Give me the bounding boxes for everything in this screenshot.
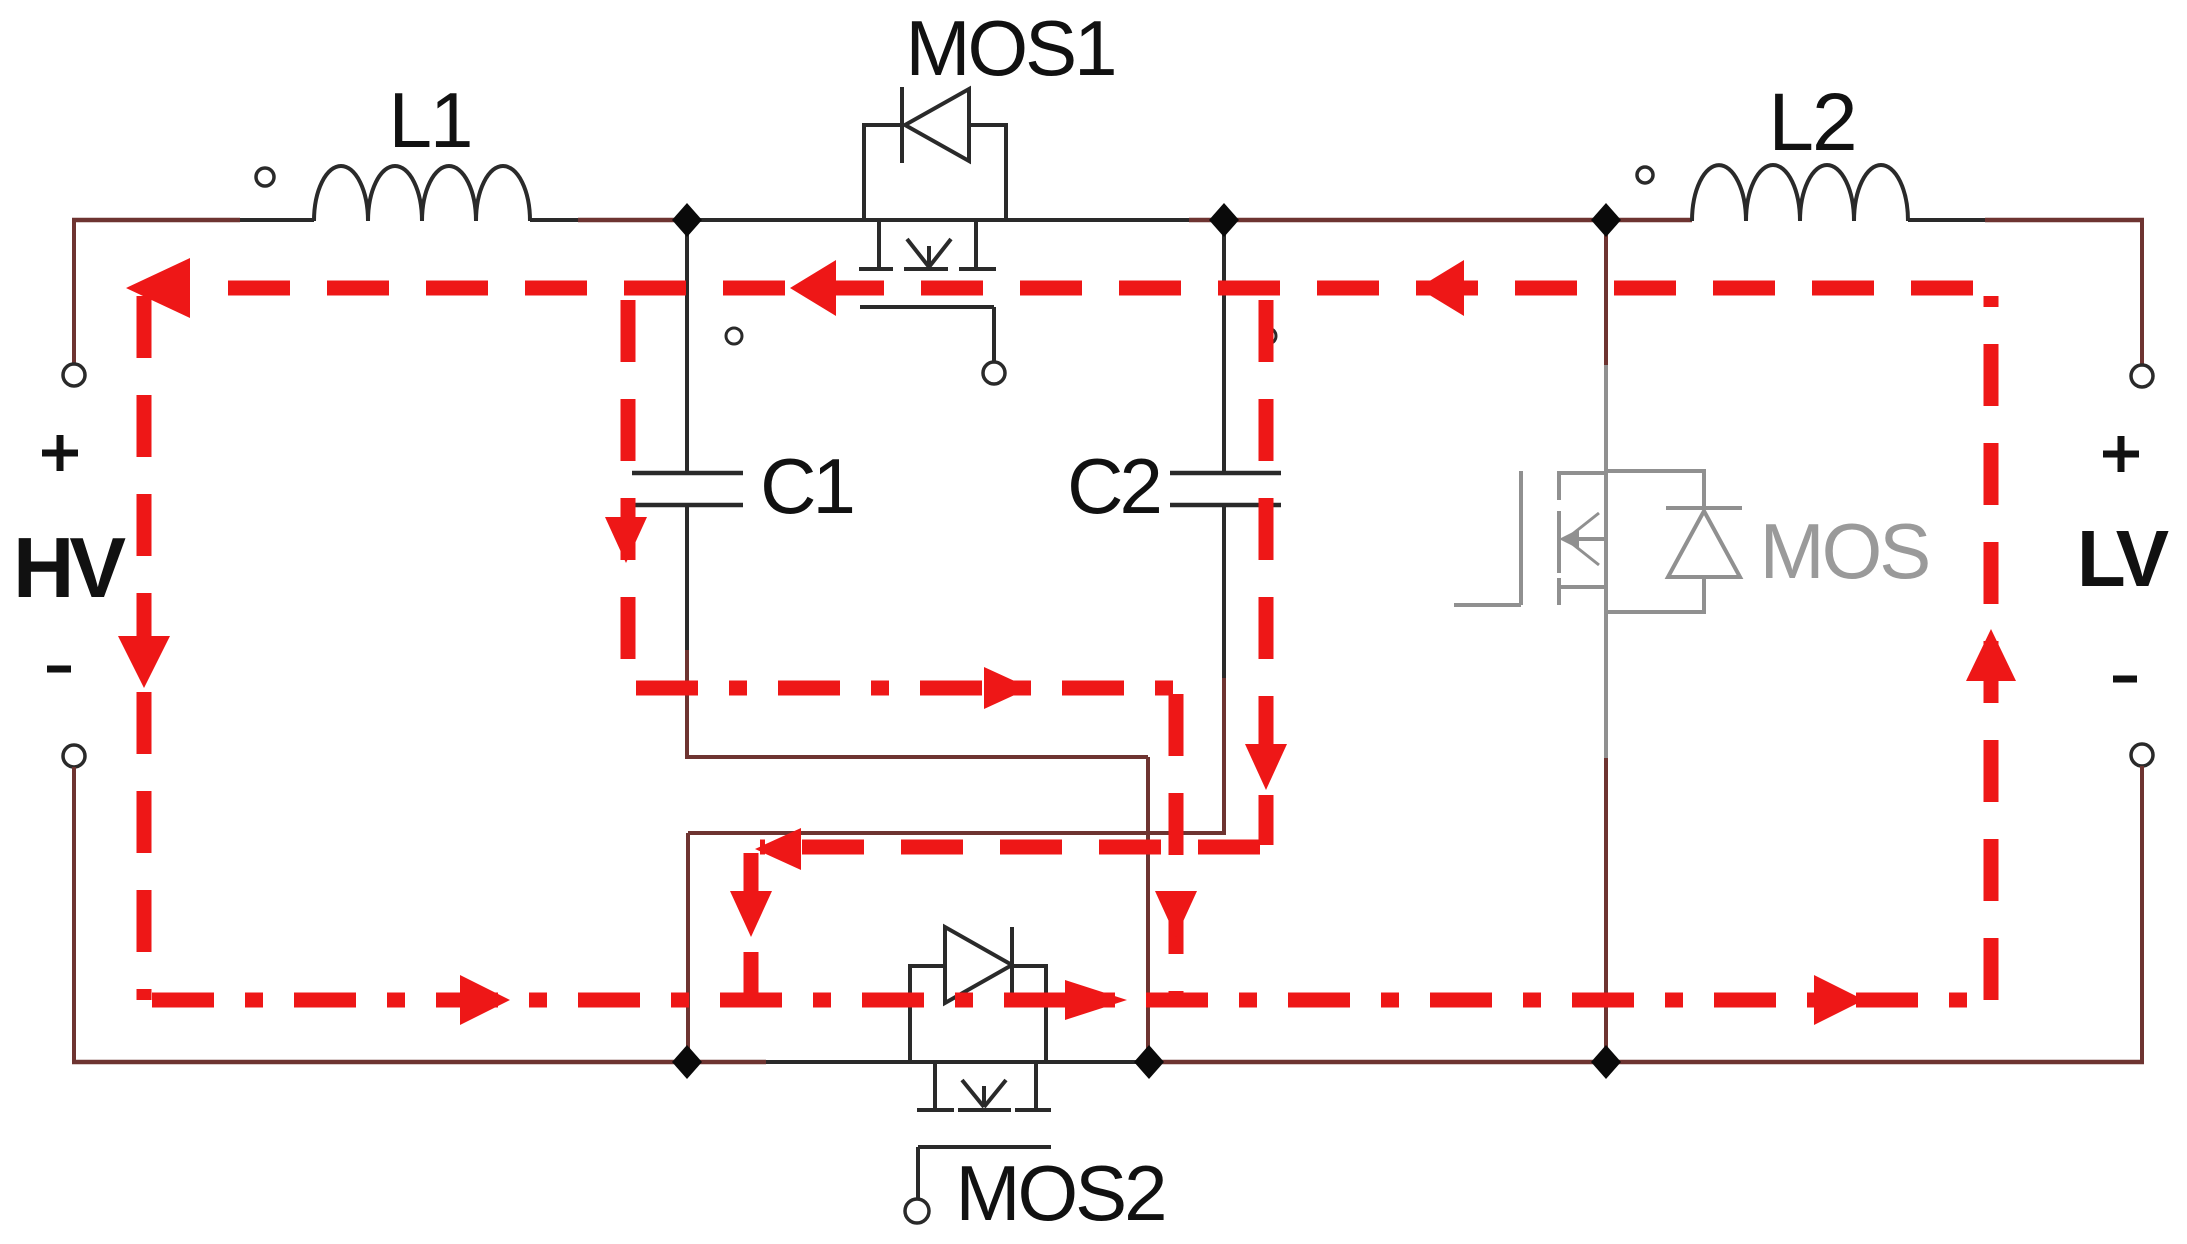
red arrowhead: C1 horizontal rightward — [984, 667, 1030, 709]
wire: bottom bus left maroon — [72, 1060, 766, 1065]
wire: top bus right maroon to corner — [1985, 218, 2144, 223]
svg-text:HV: HV — [13, 521, 126, 616]
svg-text:LV: LV — [2077, 514, 2169, 603]
wire: top bus segment after L1 black — [530, 218, 578, 222]
red path: right vertical — [1984, 296, 1999, 1000]
transistor MOS2 — [910, 927, 1051, 1198]
MOS1 gate terminal circle — [983, 362, 1005, 384]
node junction dot (bottom, MOS branch) — [1591, 1045, 1621, 1079]
wire: LV side right vertical upper segment — [2140, 220, 2144, 364]
MOS1 source stub — [974, 220, 978, 269]
svg-text:MOS: MOS — [1760, 507, 1929, 595]
label HV minus sign — [47, 666, 71, 673]
terminal: LV - port circle — [2131, 744, 2153, 766]
MOS gate lead — [1454, 603, 1521, 607]
red arrowhead: C2 x751 downward — [730, 891, 772, 937]
MOS trunk gray upper — [1604, 365, 1608, 471]
C2 polarity dot — [1260, 328, 1276, 344]
terminal: HV - port circle — [63, 745, 85, 767]
red arrowhead: top line right-middle — [1418, 260, 1464, 316]
terminal: LV + port circle — [2131, 365, 2153, 387]
MOS2 body arrow — [962, 1080, 1006, 1107]
MOS trunk gray lower — [1604, 612, 1608, 758]
MOS1 gate plate — [860, 305, 994, 309]
wire: top bus segment to node A maroon — [578, 218, 687, 223]
svg-text:C2: C2 — [1067, 442, 1159, 530]
red arrowhead: C1 x1176 downward — [1155, 891, 1197, 937]
MOS1 channel segments — [859, 267, 996, 271]
wire: C2 cross jog horizontal — [688, 831, 1226, 835]
red path: top horizontal (flow right-to-left) — [228, 281, 1991, 296]
red path: C2 return vertical at x751 — [744, 853, 759, 1000]
MOS1 body-diode loop left leg — [864, 125, 900, 220]
node junction dot (top, MOS branch) — [1591, 203, 1621, 237]
wire: top bus node A to node B black — [687, 218, 1189, 222]
red path: C1 branch vertical at x1176 — [1169, 694, 1184, 1000]
capacitor C1 top lead — [685, 220, 689, 473]
svg-text:C1: C1 — [760, 442, 852, 530]
wire: LV side right vertical lower segment — [2140, 766, 2144, 1064]
L1 phase dot — [256, 168, 274, 186]
red path: left vertical — [137, 296, 152, 1000]
L2 phase dot — [1637, 167, 1653, 183]
wire: top bus left maroon segment — [72, 218, 240, 223]
red arrowhead: C2 return leftward — [755, 828, 801, 870]
node junction dot (bottom, C1 cross) — [1134, 1045, 1164, 1079]
red arrowhead: top line left end — [126, 258, 190, 318]
wire: C2 bottom lead maroon part — [1222, 678, 1226, 833]
svg-text:MOS2: MOS2 — [955, 1149, 1164, 1237]
MOS gate bar — [1519, 471, 1523, 605]
MOS trunk through symbol — [1604, 471, 1608, 612]
MOS1 gate lead — [992, 307, 996, 362]
MOS2 source stub — [1034, 1062, 1038, 1110]
MOS body arrow connector — [1563, 537, 1606, 541]
svg-text:L1: L1 — [389, 76, 472, 164]
wire: bottom bus black through MOS2 — [766, 1060, 1149, 1064]
wire: C1 bottom lead maroon part — [685, 650, 689, 757]
label LV plus sign — [2103, 436, 2139, 472]
MOS source connector — [1559, 585, 1606, 589]
wire: top bus after L2 black — [1908, 218, 1985, 222]
wire: C2 cross jog vertical down to bottom node — [686, 833, 690, 1062]
MOS2 channel segments — [917, 1108, 1051, 1112]
red arrowhead: bottom line right — [1814, 975, 1864, 1025]
MOS2 gate lead — [916, 1147, 920, 1198]
capacitor C2 top lead — [1222, 220, 1226, 473]
node B junction dot (top, C2) — [1209, 203, 1239, 237]
red arrowhead: C1 branch downward — [605, 517, 647, 563]
MOS1 body-diode loop right leg — [971, 125, 1006, 220]
MOS drain connector — [1559, 471, 1606, 475]
red flow path: outer loop — [144, 288, 1991, 1000]
MOS2 gate plate — [918, 1145, 1051, 1149]
red arrowhead: bottom line left — [460, 975, 510, 1025]
wire: MOS branch maroon upper — [1604, 220, 1608, 365]
svg-text:L2: L2 — [1768, 77, 1855, 168]
wire: C1 cross jog vertical down to bottom node — [1146, 757, 1150, 1062]
wire: C1 bottom lead black part — [685, 505, 689, 650]
MOS2 drain stub — [933, 1062, 937, 1110]
inductor L1 — [314, 166, 530, 221]
node A junction dot (top, C1) — [672, 203, 702, 237]
wire: bottom bus right maroon — [1149, 1060, 2144, 1065]
red path: C1 branch vertical — [621, 300, 636, 688]
wire: HV side left vertical upper segment — [72, 222, 76, 363]
MOS2 gate terminal circle — [905, 1199, 929, 1223]
MOS2 body-diode cathode bar — [1010, 927, 1014, 1004]
red arrowhead: right vertical upward — [1966, 629, 2016, 681]
label LV minus sign — [2113, 676, 2137, 683]
capacitor C2 plates — [1170, 473, 1281, 505]
MOS diode loop bottom — [1606, 577, 1704, 612]
MOS2 body-diode triangle — [945, 927, 1012, 1003]
red path: C2 branch vertical at x1266 — [1259, 300, 1274, 845]
transistor MOS1 — [859, 87, 1006, 362]
wire: top bus segment before L1 — [240, 218, 314, 222]
MOS body arrowhead — [1559, 529, 1579, 549]
wire: top bus maroon through node B to L2 — [1189, 218, 1692, 223]
MOS1 body-diode cathode bar — [900, 87, 904, 163]
MOS1 body-diode triangle — [905, 89, 969, 161]
red path: C1 branch horizontal at y688 — [636, 681, 1176, 696]
terminal: HV + port circle — [63, 364, 85, 386]
red arrowhead: top line middle — [790, 260, 836, 316]
inductor L2 — [1692, 165, 1908, 221]
label HV plus sign — [42, 435, 78, 471]
red path: bottom horizontal — [152, 993, 1985, 1008]
MOS2 body-diode loop left leg — [910, 966, 943, 1062]
red path: C2 return horizontal at y847 — [760, 840, 1260, 855]
transistor MOS (disabled, gray) — [1454, 365, 1742, 758]
red arrowhead: C2 branch downward — [1245, 744, 1287, 790]
wire: MOS branch maroon lower — [1604, 758, 1608, 1062]
MOS1 drain stub — [877, 220, 881, 269]
wire: C1 cross jog horizontal — [685, 755, 1148, 759]
red arrowhead: bottom line middle — [1065, 980, 1127, 1020]
MOS2 body-diode loop right leg — [1014, 966, 1046, 1062]
MOS diode loop top — [1606, 471, 1704, 508]
red arrowhead: left vertical downward — [118, 636, 170, 688]
wire: C2 bottom lead black part — [1222, 505, 1226, 678]
MOS1 body arrow — [907, 239, 951, 267]
MOS channel segments — [1557, 471, 1561, 605]
capacitor C1 plates — [632, 473, 743, 505]
MOS diode cathode bar — [1666, 506, 1742, 510]
svg-text:MOS1: MOS1 — [905, 4, 1114, 92]
wire: HV side left vertical lower segment — [72, 767, 76, 1064]
C1 polarity dot — [726, 328, 742, 344]
MOS diode triangle — [1668, 511, 1740, 577]
node junction dot (bottom, C2 cross) — [672, 1045, 702, 1079]
